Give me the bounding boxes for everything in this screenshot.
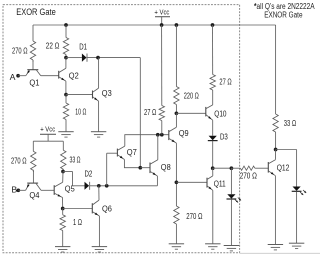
wire Q2 emitter down bbox=[65, 81, 67, 95]
wire Q1 collector to Q2 base bbox=[41, 75, 59, 77]
wire 270-TL top lead bbox=[32, 25, 34, 41]
svg-text:33 Ω: 33 Ω bbox=[70, 155, 81, 164]
resistor 33 (EXNOR) bbox=[273, 114, 278, 132]
diode D3 bbox=[209, 136, 217, 141]
svg-text:Q8: Q8 bbox=[161, 163, 171, 172]
wire 270-EXNOR to Q12 base bbox=[255, 167, 268, 169]
wire D3 out bbox=[212, 141, 214, 168]
wire LED1 bottom lead bbox=[230, 199, 232, 245]
wire 27R bottom lead bbox=[212, 90, 214, 105]
node D2-Q6 junction bbox=[97, 184, 101, 188]
node D2-Q7 junction bbox=[105, 184, 109, 188]
wire Q8 emitter down bbox=[156, 176, 158, 186]
wire 10 bottom lead bbox=[65, 120, 67, 132]
diode D2 bbox=[85, 182, 90, 190]
wire D2 out bbox=[90, 185, 157, 187]
svg-text:Q7: Q7 bbox=[127, 148, 137, 157]
wire 270-ML bottom lead bbox=[32, 170, 34, 172]
transistor Q5 bbox=[53, 185, 55, 195]
node D1 output bbox=[96, 56, 100, 60]
wire Q9e node to Q11 base bbox=[176, 181, 207, 183]
resistor 270 (Q4 base pull-up) bbox=[31, 151, 36, 170]
svg-text:Q6: Q6 bbox=[102, 204, 112, 213]
svg-text:D2: D2 bbox=[85, 170, 93, 179]
svg-text:A: A bbox=[10, 72, 16, 82]
wire 22 bottom lead bbox=[65, 55, 67, 58]
transistor Q6 bbox=[91, 203, 93, 213]
node Q5 collector junction bbox=[61, 170, 65, 174]
wire rail down EXNOR bbox=[275, 25, 277, 114]
svg-text:27 Ω: 27 Ω bbox=[219, 78, 231, 87]
wire 27L top lead bbox=[161, 25, 163, 106]
node D3-Q11c junction bbox=[211, 166, 215, 170]
wire 27L bottom lead bbox=[161, 121, 163, 135]
svg-text:+ Vcc: + Vcc bbox=[154, 7, 169, 16]
node Q5 emitter junction bbox=[61, 207, 65, 211]
wire 22 top lead bbox=[65, 25, 67, 38]
transistor Q7 bbox=[116, 149, 118, 157]
node LED1 junction bbox=[230, 166, 234, 170]
svg-text:Q11: Q11 bbox=[214, 180, 226, 189]
node rail-27b bbox=[211, 23, 215, 27]
transistor Q3 bbox=[92, 91, 94, 99]
LED D4 bbox=[227, 194, 235, 198]
transistor Q8 bbox=[149, 163, 151, 174]
node Q12 collector junction bbox=[274, 148, 278, 152]
node Q8 collector junction bbox=[156, 133, 160, 137]
wire 10 top lead bbox=[65, 95, 67, 103]
diode D1 bbox=[82, 54, 87, 62]
wire Q5e node to Q6 base bbox=[63, 208, 93, 210]
wire A to Q1 emitter bbox=[18, 75, 26, 77]
ground (LED1) bbox=[224, 245, 239, 247]
wire Q7 collector up+right bbox=[125, 135, 169, 146]
wire 33-ML bottom lead bbox=[62, 169, 64, 171]
node rail-220 bbox=[175, 23, 179, 27]
svg-text:D3: D3 bbox=[220, 133, 228, 142]
wire long vertical (D1 out down to Q8 base node) bbox=[139, 58, 141, 168]
node D1-anode junction bbox=[64, 56, 68, 60]
wire Q12 collector up bbox=[274, 150, 276, 160]
wire Q9 emitter down bbox=[175, 143, 177, 206]
wire 33-ML top lead bbox=[62, 141, 64, 150]
svg-text:Q3: Q3 bbox=[102, 89, 112, 98]
svg-text:270 Ω: 270 Ω bbox=[11, 156, 27, 165]
svg-text:1 Ω: 1 Ω bbox=[73, 218, 82, 227]
node Q7e-Q8b junction bbox=[138, 166, 142, 170]
svg-text:Q4: Q4 bbox=[29, 191, 40, 200]
ground (LED2) bbox=[289, 242, 304, 244]
wire Vcc rail bbox=[33, 24, 276, 26]
node Q9e-Q11b junction bbox=[175, 180, 179, 184]
ground (Q6) bbox=[92, 246, 107, 248]
wire Q3 emitter down bbox=[98, 101, 100, 132]
wire LED2 bottom lead bbox=[296, 192, 298, 244]
resistor 270 (Q1 base pull-up) bbox=[30, 41, 35, 60]
wire Q9 collector up bbox=[175, 113, 177, 127]
wire 220 bottom lead bbox=[175, 105, 177, 114]
svg-text:22 Ω: 22 Ω bbox=[46, 42, 60, 51]
wire Q5 emitter down bbox=[62, 198, 64, 209]
node rail-22 bbox=[64, 23, 68, 27]
node Q2 emitter junction bbox=[64, 93, 68, 97]
wire Q6 collector up bbox=[98, 186, 100, 200]
resistor 27 (left) bbox=[159, 106, 164, 121]
svg-text:Q2: Q2 bbox=[69, 72, 79, 81]
svg-text:B: B bbox=[11, 185, 17, 195]
wire Q5c node right bbox=[63, 171, 73, 173]
ground (270 BM) bbox=[169, 243, 184, 245]
transistor Q2 bbox=[58, 71, 60, 79]
wire Q9c node to Q10 base bbox=[176, 112, 205, 114]
resistor 220 bbox=[174, 87, 179, 105]
svg-text:10 Ω: 10 Ω bbox=[75, 107, 86, 116]
wire Q11 emitter down bbox=[212, 190, 214, 244]
wire LED1 top lead bbox=[230, 168, 232, 194]
wire Q11c node right bbox=[213, 167, 232, 169]
svg-text:Q1: Q1 bbox=[29, 78, 39, 87]
faint bottom image edge bbox=[240, 252, 320, 254]
wire 270-TL bottom lead bbox=[32, 60, 34, 62]
svg-text:33 Ω: 33 Ω bbox=[284, 119, 297, 128]
wire Q10 emitter to D3 bbox=[212, 120, 214, 136]
ground (Q3 emitter) bbox=[91, 131, 106, 133]
wire Q2 collector up bbox=[65, 58, 67, 69]
transistor Q9 bbox=[168, 130, 170, 140]
wire LED2 top lead bbox=[296, 150, 298, 187]
svg-text:EXOR Gate: EXOR Gate bbox=[16, 7, 56, 17]
svg-text:270 Ω: 270 Ω bbox=[186, 212, 202, 221]
wire Q8 collector up bbox=[157, 135, 159, 160]
wire 1ohm top lead bbox=[62, 209, 64, 215]
svg-text:Q10: Q10 bbox=[214, 110, 227, 119]
resistor 33 (Q5 collector) bbox=[61, 150, 66, 169]
resistor 270 (Q9 emitter) bbox=[174, 206, 179, 224]
svg-text:D1: D1 bbox=[79, 42, 87, 51]
dashed border EXOR box bbox=[3, 5, 240, 253]
wire Q3 collector up bbox=[98, 58, 100, 89]
wire 220 top lead bbox=[175, 25, 177, 87]
wire D1 to crossover line bbox=[87, 57, 140, 59]
transistor Q11 bbox=[206, 178, 208, 188]
wire Q5 collector up bbox=[62, 172, 64, 183]
node rail-vcc bbox=[160, 23, 164, 27]
wire B to Q4 emitter bbox=[18, 189, 25, 191]
transistor Q4 bbox=[32, 170, 34, 183]
resistor 10 bbox=[63, 103, 68, 120]
wire riser to Q7 base bbox=[106, 153, 108, 186]
wire down to D2 level bbox=[72, 172, 74, 186]
wire 22node to D1 bbox=[66, 57, 82, 59]
transistor Q12 bbox=[267, 162, 269, 173]
svg-text:270 Ω: 270 Ω bbox=[240, 171, 257, 180]
wire to Q8 base bbox=[140, 167, 150, 169]
wire Q11 collector up bbox=[212, 168, 214, 176]
svg-text:+ Vcc: + Vcc bbox=[40, 125, 55, 134]
ground (Q12) bbox=[268, 244, 283, 246]
resistor 27 (right) bbox=[210, 75, 215, 91]
svg-text:27 Ω: 27 Ω bbox=[144, 108, 156, 117]
resistor 270 (EXNOR base) bbox=[240, 166, 254, 170]
wire 270-ML top lead bbox=[32, 141, 34, 151]
ground (1 ohm) bbox=[55, 246, 70, 248]
resistor 1 (Q5 emitter) bbox=[60, 215, 65, 231]
svg-text:220 Ω: 220 Ω bbox=[184, 92, 199, 101]
wire Q6 emitter down bbox=[98, 216, 100, 247]
wire Q12 emitter down bbox=[274, 176, 276, 245]
svg-text:Q9: Q9 bbox=[179, 129, 189, 138]
wire 270-BM bottom lead bbox=[175, 224, 177, 244]
ground (10 ohm) bbox=[58, 131, 73, 133]
wire Q12c node right bbox=[276, 149, 297, 151]
transistor Q10 bbox=[205, 107, 207, 117]
wire to 270-EXNOR bbox=[231, 167, 240, 169]
transistor Q1 bbox=[32, 60, 34, 70]
node 220-Q9-Q10 junction bbox=[175, 111, 179, 115]
wire Q7 emitter down+right bbox=[124, 160, 140, 168]
node 27L junction bbox=[160, 133, 164, 137]
svg-text:270 Ω: 270 Ω bbox=[12, 47, 28, 56]
wire 27R top lead bbox=[212, 25, 214, 75]
ground (Q11) bbox=[205, 243, 220, 245]
wire mid rail bbox=[33, 140, 63, 142]
LED D5 bbox=[293, 187, 301, 191]
resistor 22 bbox=[63, 38, 68, 55]
wire Q2e node to Q3 base bbox=[66, 94, 93, 96]
wire Q4 collector to Q5 base bbox=[41, 189, 54, 191]
svg-text:EXNOR Gate: EXNOR Gate bbox=[264, 11, 303, 20]
wire 1ohm bottom lead bbox=[62, 231, 64, 247]
wire to D2 anode bbox=[73, 185, 85, 187]
svg-text:Q12: Q12 bbox=[277, 164, 290, 173]
wire 33-EXNOR bottom lead bbox=[275, 132, 277, 150]
